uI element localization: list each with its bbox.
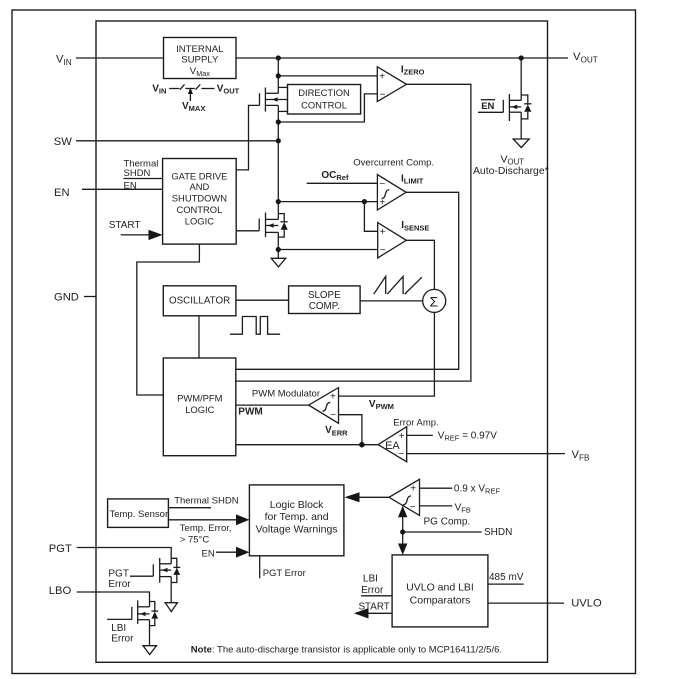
wire VIN to internal supply: [76, 57, 164, 59]
wire START arrow into gate drive: [121, 234, 150, 236]
wire 485mV stub: [488, 583, 524, 585]
wire EN arrow to logic block: [216, 551, 237, 553]
wire EA plus to VREF: [407, 434, 433, 436]
svg-text:SHUTDOWN: SHUTDOWN: [172, 193, 227, 204]
svg-text:SHDN: SHDN: [124, 168, 151, 179]
ground G3 PGT: [165, 603, 177, 612]
svg-text:−: −: [380, 89, 386, 100]
wire ISENSE output to sigma: [406, 240, 434, 289]
svg-text:Overcurrent Comp.: Overcurrent Comp.: [353, 157, 434, 168]
wire sigma to PWM modulator plus: [339, 312, 435, 396]
wire PGT Error output of logic block: [259, 556, 261, 579]
svg-text:Auto-Discharge*: Auto-Discharge*: [473, 166, 549, 177]
svg-text:−: −: [379, 179, 385, 190]
wire gate drive to pwm logic long route: [137, 244, 200, 395]
wire VFB line from error amp: [407, 453, 565, 455]
wire thermal shdn stub: [168, 507, 211, 509]
svg-text:−: −: [330, 410, 336, 421]
svg-text:−: −: [410, 502, 416, 513]
svg-text:Voltage Warnings: Voltage Warnings: [256, 523, 338, 535]
svg-text:PGT: PGT: [49, 543, 72, 555]
svg-text:PWM Modulator: PWM Modulator: [252, 389, 320, 400]
box oscillator U4: [163, 286, 236, 316]
wire START arrow out of UVLO box: [365, 612, 392, 614]
svg-text:Error: Error: [111, 634, 134, 645]
wire slope comp to sigma: [360, 300, 423, 302]
svg-text:Temp. Sensor: Temp. Sensor: [110, 509, 169, 520]
comparator PG: [389, 479, 420, 515]
svg-text:LOGIC: LOGIC: [185, 215, 214, 226]
wire SHDN line: [403, 531, 482, 533]
svg-text:EN: EN: [54, 187, 70, 199]
svg-text:Error: Error: [361, 585, 384, 596]
wire thermal shdn to box: [124, 178, 163, 180]
square wave icon: [230, 317, 280, 335]
svg-text:PGT: PGT: [108, 569, 129, 580]
svg-text:+: +: [330, 392, 336, 403]
wire PGT line: [77, 548, 171, 564]
wire PG minus input: [420, 505, 453, 507]
summer sigma circle: [423, 289, 446, 312]
wire LBI error into box: [361, 595, 392, 597]
body diode D2: [278, 214, 288, 238]
node dot VERR junction: [359, 442, 365, 448]
wire ISENSE minus input line: [278, 249, 377, 251]
svg-text:GND: GND: [54, 292, 79, 304]
wire OCRef input: [307, 182, 378, 184]
transistor Q4 PGT error: [130, 558, 171, 603]
comparator IZERO: [377, 64, 424, 101]
node dot SW junction: [276, 138, 281, 143]
svg-text:Σ: Σ: [430, 293, 439, 309]
wire PG to UVLO vertical with arrows: [402, 514, 404, 546]
svg-text:SHDN: SHDN: [484, 527, 512, 538]
wire temp error arrow: [168, 519, 237, 521]
svg-text:Thermal SHDN: Thermal SHDN: [174, 496, 239, 507]
box gate drive and shutdown control logic U3: [163, 159, 237, 245]
ground G2 auto-discharge: [513, 139, 529, 148]
svg-text:Note: The auto-discharge trans: Note: The auto-discharge transistor is a…: [191, 645, 502, 656]
svg-text:CONTROL: CONTROL: [176, 204, 222, 215]
comparator ILIMIT: [377, 173, 423, 210]
wire EN to gate drive box: [82, 188, 163, 190]
svg-text:AND: AND: [190, 181, 210, 192]
wire ILIMIT plus input line: [278, 201, 377, 203]
svg-text:SW: SW: [54, 136, 72, 148]
wire gate drive to NMOS gate: [236, 230, 259, 232]
wire ILIMIT output route: [236, 192, 459, 369]
transistor Q5 LBI error: [107, 600, 149, 645]
node dot NMOS source ISENSE junction: [276, 247, 281, 252]
svg-text:UVLO: UVLO: [571, 598, 602, 610]
svg-text:−: −: [380, 245, 386, 256]
wire IZERO output route: [236, 84, 471, 381]
wire error amp output line: [236, 444, 378, 446]
wire PWM modulator output to logic box: [236, 404, 309, 406]
wire IZERO minus route: [278, 94, 377, 122]
chip boundary rectangle: [96, 21, 548, 662]
box logic block U8: [249, 485, 344, 556]
VMAX selector doodle: [152, 83, 239, 113]
wire oscillator to slope comp: [236, 299, 289, 301]
svg-text:GATE DRIVE: GATE DRIVE: [171, 170, 227, 181]
wire stub rail to direction control lower: [278, 110, 287, 112]
node dot IZERO plus feed: [276, 73, 281, 78]
svg-text:EN: EN: [481, 101, 494, 112]
svg-text:Error: Error: [108, 579, 131, 590]
svg-text:+: +: [380, 227, 386, 238]
svg-text:OSCILLATOR: OSCILLATOR: [169, 296, 230, 307]
ground G4 LBI: [143, 646, 157, 655]
wire vertical rail below NMOS: [277, 232, 279, 258]
svg-text:Comparators: Comparators: [410, 594, 471, 606]
svg-text:LBI: LBI: [111, 623, 126, 634]
node dot SHDN junction: [400, 529, 405, 534]
node dot rail-top at x278: [276, 55, 281, 60]
svg-text:EA: EA: [385, 440, 400, 452]
wire SW rail: [76, 140, 278, 142]
wire gate drive to PMOS gate: [236, 105, 259, 169]
svg-text:LOGIC: LOGIC: [185, 404, 214, 415]
wire PG output arrow to logic block: [356, 496, 389, 498]
wire vertical rail x278 upper segment: [277, 58, 279, 93]
svg-text:Temp. Error,: Temp. Error,: [180, 523, 232, 534]
svg-text:START: START: [109, 220, 141, 231]
wire GND stub: [84, 296, 96, 298]
comparator PWM modulator: [309, 388, 339, 424]
node dot NMOS drain ILIMIT junction: [276, 199, 281, 204]
svg-text:UVLO and LBI: UVLO and LBI: [406, 582, 474, 594]
transistor Q1 PMOS pass: [260, 88, 288, 112]
svg-text:485 mV: 485 mV: [489, 572, 524, 583]
node dot IZERO minus feed: [276, 119, 281, 124]
wire UVLO line: [488, 602, 564, 604]
box temp sensor U7: [108, 499, 169, 528]
svg-text:PGT Error: PGT Error: [263, 568, 306, 579]
transistor Q3 auto-discharge: [478, 58, 521, 139]
svg-text:SLOPE: SLOPE: [308, 290, 341, 301]
svg-text:+: +: [379, 71, 385, 82]
box direction control U2: [288, 85, 361, 115]
wire vertical rail x278 below PMOS: [277, 105, 279, 219]
svg-text:EN: EN: [202, 549, 215, 560]
svg-text:EN: EN: [124, 180, 137, 191]
box internal supply U1: [164, 38, 237, 79]
svg-text:PG Comp.: PG Comp.: [424, 517, 471, 528]
svg-text:for Temp. and: for Temp. and: [265, 511, 329, 523]
wire modulator minus branch: [339, 415, 362, 445]
svg-text:DIRECTION: DIRECTION: [298, 87, 350, 98]
node dot ILIMIT ISENSE branch: [362, 199, 367, 204]
svg-text:INTERNAL: INTERNAL: [176, 44, 224, 55]
ground G1 below NMOS: [271, 258, 286, 267]
node dot auto-discharge drain on VOUT rail: [519, 55, 524, 60]
wire IZERO plus input rail: [278, 75, 377, 77]
box pwm pfm logic U6: [163, 358, 236, 456]
body diode D3: [521, 95, 531, 119]
svg-text:+: +: [410, 484, 416, 495]
svg-text:LBO: LBO: [49, 585, 72, 597]
svg-text:PWM/PFM: PWM/PFM: [177, 393, 222, 404]
wire PG plus input: [420, 487, 453, 489]
comparator ISENSE: [378, 220, 430, 258]
svg-text:COMP.: COMP.: [309, 301, 340, 312]
error amp EA: [378, 427, 407, 462]
wire branch to ISENSE plus: [364, 202, 377, 232]
svg-text:> 75°C: > 75°C: [180, 535, 210, 546]
wire VOUT top rail from internal supply: [236, 57, 568, 59]
wire oscillator to pwm logic: [198, 316, 200, 358]
box UVLO and LBI comparators U9: [392, 555, 488, 627]
svg-text:LBI: LBI: [363, 574, 378, 585]
body diode D5: [150, 602, 159, 626]
wire stub rail to direction control upper: [278, 86, 287, 88]
box slope comp U5: [289, 286, 361, 314]
svg-text:Error Amp.: Error Amp.: [393, 418, 438, 429]
transistor Q2 NMOS low-side: [259, 213, 278, 238]
sawtooth icon: [374, 276, 422, 294]
svg-text:SUPPLY: SUPPLY: [181, 54, 219, 65]
svg-text:PWM: PWM: [238, 407, 262, 418]
svg-text:Logic Block: Logic Block: [270, 499, 324, 511]
svg-text:CONTROL: CONTROL: [301, 99, 347, 110]
wire LBO line: [77, 592, 150, 607]
body diode D4: [171, 558, 180, 582]
